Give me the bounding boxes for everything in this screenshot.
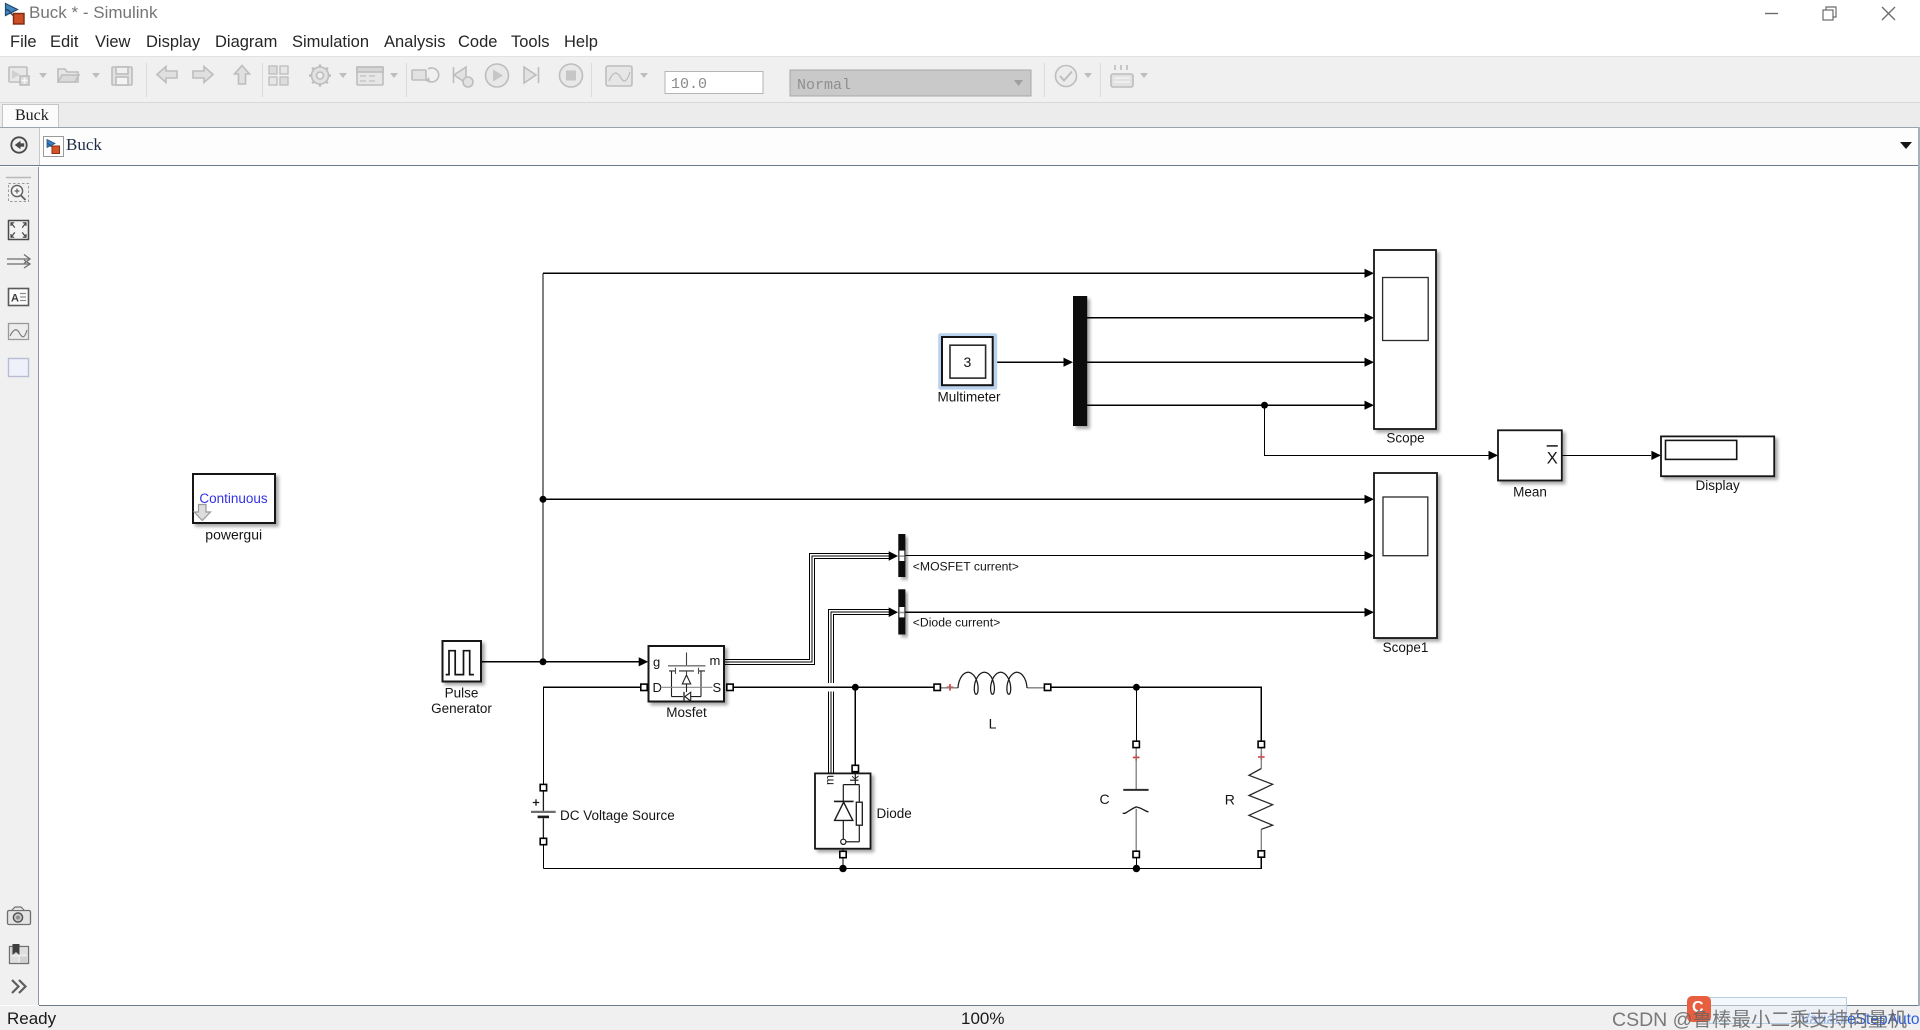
wire pulse generator output to Mosfet g xyxy=(481,661,639,663)
wire DC source plus up to Mosfet D xyxy=(543,687,641,784)
svg-text:m: m xyxy=(823,775,837,785)
mosfet symbol xyxy=(661,653,713,702)
signal routing icon xyxy=(7,255,30,269)
bus selector 1 xyxy=(898,534,905,577)
svg-text:<MOSFET current>: <MOSFET current> xyxy=(913,559,1019,573)
svg-text:10.0: 10.0 xyxy=(671,76,707,93)
svg-text:Mean: Mean xyxy=(1513,485,1547,500)
inductor coil xyxy=(958,672,1027,694)
Display block xyxy=(1661,436,1774,476)
library annotations icon xyxy=(10,944,29,964)
camera icon xyxy=(8,907,31,925)
bus selector 2 xyxy=(898,589,905,634)
DC Voltage Source xyxy=(531,791,556,839)
status bar xyxy=(0,1006,1920,1030)
svg-text:Multimeter: Multimeter xyxy=(937,390,1001,405)
svg-text:Scope1: Scope1 xyxy=(1383,640,1429,655)
svg-text:3: 3 xyxy=(964,354,972,370)
diagram svg xyxy=(39,167,1920,1005)
powergui block xyxy=(193,474,275,523)
zoom tool icon xyxy=(9,184,29,202)
Pulse Generator block xyxy=(443,641,482,682)
svg-text:DC Voltage Source: DC Voltage Source xyxy=(560,808,675,823)
toolbar xyxy=(0,56,1920,103)
svg-text:<Diode current>: <Diode current> xyxy=(913,616,1000,630)
battery bottom plate xyxy=(538,816,549,819)
forward arrow xyxy=(193,67,213,83)
Mean block xyxy=(1498,430,1562,480)
mode dropdown xyxy=(790,70,1031,96)
stop icon xyxy=(560,64,583,87)
svg-text:Normal: Normal xyxy=(797,77,851,94)
step back icon xyxy=(454,67,474,87)
resistor leads xyxy=(1260,748,1262,851)
breadcrumb model icon xyxy=(43,136,64,157)
capacitor leads xyxy=(1135,748,1137,852)
wire L to C and R top xyxy=(1051,687,1262,741)
svg-text:Pulse: Pulse xyxy=(445,686,479,701)
annotation icon xyxy=(9,289,29,306)
battery leads xyxy=(542,791,544,839)
wire Multimeter output to Demux xyxy=(993,361,1064,363)
gear icon xyxy=(309,65,331,87)
wire pulse net to Scope1 input 1 xyxy=(543,498,1365,500)
battery plus sign xyxy=(533,799,539,805)
red plus polarity xyxy=(1133,754,1140,761)
window right edge xyxy=(1918,127,1920,1006)
wire pulse net to Scope input 1 xyxy=(543,272,1365,274)
wire junction down to C top xyxy=(1135,687,1137,741)
check icon xyxy=(1056,66,1077,87)
svg-text:A: A xyxy=(11,293,19,305)
tab bar xyxy=(0,102,1920,128)
wire C bottom to rail xyxy=(1135,858,1137,866)
Multimeter block (selected) xyxy=(938,333,997,389)
svg-text:Continuous: Continuous xyxy=(199,491,268,506)
new model icon xyxy=(9,67,29,85)
fit to view icon xyxy=(9,221,29,240)
step forward icon xyxy=(524,67,539,83)
breadcrumb bar xyxy=(0,127,1920,166)
Demux xyxy=(1073,296,1087,426)
simulink app icon xyxy=(4,2,28,26)
wire Mosfet S to inductor L xyxy=(733,686,934,688)
inductor leads xyxy=(941,687,1045,689)
svg-text:k: k xyxy=(848,775,862,782)
wire pulse net vertical riser xyxy=(542,273,544,662)
svg-text:S: S xyxy=(713,680,722,695)
svg-text:C: C xyxy=(1099,791,1109,807)
save icon xyxy=(112,67,132,85)
breadcrumb dropdown xyxy=(1898,140,1914,152)
back nav button xyxy=(10,136,28,154)
window minimize xyxy=(1758,0,1788,26)
sim time field xyxy=(665,72,763,94)
image icon xyxy=(9,324,29,340)
library browser icon xyxy=(269,66,288,85)
bus Diode m to selector2 (3 lines, gap at wire crossing) xyxy=(829,610,889,774)
wire Demux out3 to Scope input 4 xyxy=(1087,404,1365,406)
wire Demux out2 to Scope input 3 xyxy=(1087,361,1365,363)
svg-text:R: R xyxy=(1225,792,1235,808)
pulse waveform icon xyxy=(446,651,474,675)
battery top plate xyxy=(531,811,556,813)
resistor zigzag xyxy=(1249,769,1273,830)
wire DC source minus down to ground rail xyxy=(542,845,544,869)
Diode block xyxy=(815,773,871,848)
model settings icon xyxy=(357,67,383,85)
wire bottom ground rail xyxy=(543,857,1261,868)
area box icon xyxy=(9,359,29,377)
Inductor L xyxy=(941,672,1045,694)
svg-text:powergui: powergui xyxy=(205,527,262,543)
up arrow xyxy=(235,66,250,85)
red plus polarity xyxy=(947,684,954,691)
back arrow xyxy=(157,67,177,83)
window close xyxy=(1874,0,1904,26)
svg-text:Diode: Diode xyxy=(877,806,912,821)
build icon xyxy=(1111,65,1133,87)
title bar xyxy=(0,0,1920,30)
menu bar xyxy=(0,30,1920,56)
window restore xyxy=(1816,0,1846,26)
svg-text:D: D xyxy=(653,680,662,695)
wire Mean output to Display xyxy=(1562,454,1651,456)
Scope1 block xyxy=(1374,473,1437,638)
svg-text:Generator: Generator xyxy=(431,701,492,716)
expand chevrons xyxy=(12,980,26,993)
powergui arrow icon xyxy=(194,505,210,521)
wire bus selector1 output to Scope1 input 2 xyxy=(905,555,1364,557)
run icon xyxy=(486,64,509,87)
svg-text:Scope: Scope xyxy=(1386,431,1424,446)
left palette xyxy=(0,167,39,1005)
port squares xyxy=(540,684,1264,858)
junction dots xyxy=(540,402,1269,873)
svg-text:g: g xyxy=(653,655,660,670)
Scope block xyxy=(1374,250,1436,429)
svg-text:X: X xyxy=(1547,450,1558,468)
svg-text:L: L xyxy=(989,716,997,732)
scope toolbar icon xyxy=(606,66,632,86)
wire S node down to Diode k xyxy=(854,687,856,765)
update diagram icon xyxy=(412,68,439,82)
capacitor top plate xyxy=(1123,789,1148,791)
wire diode anode to rail xyxy=(842,858,844,866)
Resistor R xyxy=(1249,748,1273,851)
canvas xyxy=(39,167,1920,1006)
red plus polarity xyxy=(1258,754,1265,761)
wire branch to Mean input xyxy=(1265,405,1489,455)
svg-text:Mosfet: Mosfet xyxy=(666,705,707,720)
signal arrowheads xyxy=(639,269,1661,667)
open icon xyxy=(58,69,79,82)
svg-text:m: m xyxy=(710,653,721,668)
Capacitor C xyxy=(1123,748,1149,852)
wire Demux out1 to Scope input 2 xyxy=(1087,317,1365,319)
capacitor curved plate xyxy=(1123,807,1149,814)
bus Mosfet m to selector1 (3 lines) xyxy=(725,554,890,665)
wire bus selector2 output to Scope1 input 3 xyxy=(905,611,1364,613)
Mosfet block xyxy=(649,646,725,702)
svg-text:Display: Display xyxy=(1695,478,1740,493)
csdn watermark xyxy=(1610,994,1920,1030)
